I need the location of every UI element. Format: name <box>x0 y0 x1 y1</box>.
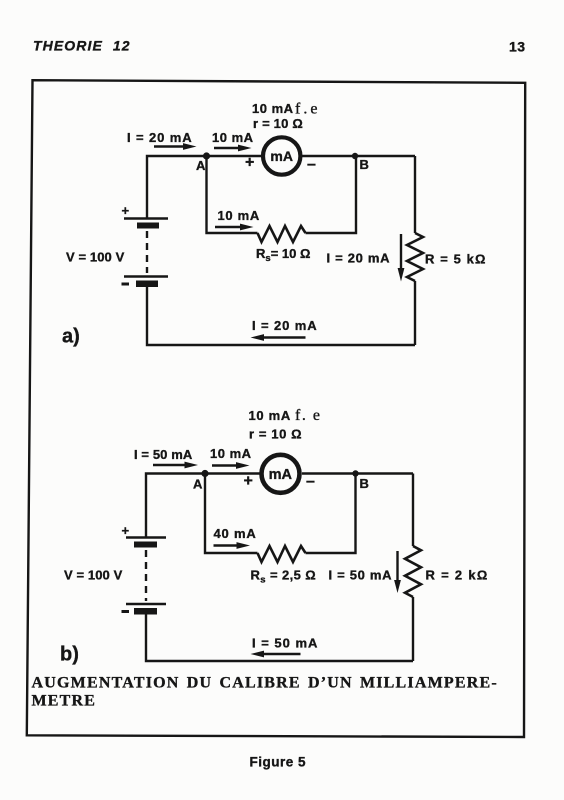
current arrow down (R b) <box>394 551 401 593</box>
label r = 10 ohm (meter a resistance) <box>253 116 303 131</box>
svg-text:I = 50 mA: I = 50 mA <box>329 568 393 583</box>
svg-text:mA: mA <box>269 467 293 483</box>
R branch a: lower vertical <box>414 281 416 345</box>
label r = 10 ohm (meter b resistance) <box>249 427 302 442</box>
svg-text:Figure 5: Figure 5 <box>250 755 307 770</box>
figure caption <box>250 755 307 770</box>
meter a minus terminal <box>307 156 316 173</box>
label I = 20 mA (near R a) <box>327 251 391 266</box>
arrow for 10 mA (meter branch a) <box>214 145 252 152</box>
svg-text:a): a) <box>62 326 80 348</box>
svg-text:+: + <box>245 154 254 171</box>
svg-text:40 mA: 40 mA <box>214 526 257 541</box>
wire shunt b right to node B <box>306 474 356 554</box>
arrow for 10 mA (shunt a) <box>215 224 254 231</box>
svg-text:I = 50 mA: I = 50 mA <box>134 447 193 462</box>
arrow for 10 mA (meter branch b) <box>212 462 250 469</box>
label b) <box>60 644 79 666</box>
svg-text:10 mA: 10 mA <box>210 446 252 461</box>
battery V1 plus sign <box>122 203 130 218</box>
svg-text:B: B <box>360 476 369 491</box>
svg-text:10 mA: 10 mA <box>212 130 254 145</box>
svg-text:+: + <box>122 203 130 218</box>
svg-text:A: A <box>193 477 203 492</box>
arrow for 40 mA (shunt b) <box>214 542 251 549</box>
caption line 2 <box>32 693 97 710</box>
wire battery a bottom lead <box>147 287 415 345</box>
arrow for I = 20 mA (bottom a, pointing left) <box>251 334 306 341</box>
label 10 mA f.e (meter a rating) <box>252 101 320 118</box>
svg-text:13: 13 <box>509 39 526 55</box>
arrow for I = 20 mA (top a) <box>154 143 197 150</box>
arrow for I = 50 mA (bottom b, pointing left) <box>251 651 301 658</box>
resistor R (b) vertical zigzag <box>405 546 421 597</box>
node A (circuit a) <box>196 152 210 173</box>
meter b plus terminal <box>244 473 253 490</box>
label I = 50 mA (bottom b) <box>252 636 318 651</box>
wire top a: meter to R branch <box>302 155 415 157</box>
resistor Rs (b) zigzag <box>258 546 306 562</box>
battery V2 dashed middle <box>145 550 147 601</box>
meter b minus terminal <box>306 473 315 490</box>
border frame <box>27 80 525 737</box>
label 10 mA (meter branch b) <box>210 446 252 461</box>
svg-text:b): b) <box>60 644 79 666</box>
node A (circuit b) <box>193 470 209 492</box>
wire shunt a right to node B <box>306 156 357 233</box>
label I = 20 mA (top left a) <box>127 130 193 145</box>
current arrow down (R a) <box>398 234 405 282</box>
label I = 50 mA (top left b) <box>134 447 193 462</box>
svg-text:V = 100 V: V = 100 V <box>64 568 123 583</box>
battery V2 plus sign <box>122 523 130 538</box>
svg-text:I = 20 mA: I = 20 mA <box>127 130 193 145</box>
milliammeter a <box>263 137 300 174</box>
milliammeter b <box>262 455 300 493</box>
svg-text:A: A <box>196 158 206 173</box>
meter a plus terminal <box>245 154 254 171</box>
svg-text:THEORIE 12: THEORIE 12 <box>33 38 131 54</box>
label Rs = 2,5 ohm <box>251 568 317 586</box>
battery V1 top cell <box>124 219 168 229</box>
shunt loop a left: node A down and to resistor <box>207 156 258 233</box>
wire top b: meter to R branch <box>302 472 413 474</box>
resistor Rs (a) zigzag <box>258 226 306 242</box>
page number 13 <box>509 39 526 55</box>
label R = 2 kohm <box>426 568 489 583</box>
label R = 5 kohm <box>425 252 487 267</box>
arrow for I = 50 mA (top b) <box>153 462 198 469</box>
svg-text:10 mA: 10 mA <box>218 208 261 223</box>
node B (circuit a) <box>352 153 369 172</box>
node B (circuit b) <box>352 470 369 491</box>
svg-text:+: + <box>122 523 130 538</box>
R branch a: upper vertical <box>414 156 416 233</box>
svg-text:–: – <box>306 473 315 490</box>
svg-text:+: + <box>244 473 253 490</box>
label I = 20 mA (bottom a) <box>252 318 318 333</box>
R branch b: upper vertical <box>412 474 414 547</box>
svg-text:AUGMENTATION DU CALIBRE D’UN M: AUGMENTATION DU CALIBRE D’UN MILLIAMPERE… <box>32 675 498 692</box>
battery V1 dashed middle <box>146 231 148 273</box>
svg-text:METRE: METRE <box>32 693 97 710</box>
battery V2 top cell <box>126 538 166 548</box>
svg-text:B: B <box>360 157 369 172</box>
svg-text:Rs= 10 Ω: Rs= 10 Ω <box>256 246 310 264</box>
label V = 100 V (a) <box>66 250 125 265</box>
label 10 mA (shunt a) <box>218 208 261 223</box>
wire battery b bottom lead <box>146 614 413 661</box>
svg-text:f.e: f.e <box>295 101 320 118</box>
svg-text:R = 5 kΩ: R = 5 kΩ <box>425 252 487 267</box>
label 10 mA (meter branch a) <box>212 130 254 145</box>
R branch b: lower vertical <box>412 597 414 661</box>
wire top a: battery to meter <box>147 156 262 218</box>
label 10 mA f. e (meter b rating) <box>249 407 322 424</box>
svg-text:f. e: f. e <box>295 407 321 424</box>
label V = 100 V (b) <box>64 568 123 583</box>
resistor R (a) vertical zigzag <box>407 233 423 281</box>
svg-text:I = 20 mA: I = 20 mA <box>327 251 391 266</box>
svg-text:10 mA: 10 mA <box>252 101 294 116</box>
svg-text:r = 10 Ω: r = 10 Ω <box>249 427 302 442</box>
page header left <box>33 38 131 54</box>
label Rs = 10 ohm <box>256 246 310 264</box>
label 40 mA (shunt b) <box>214 526 257 541</box>
battery V1 bottom cell <box>122 277 169 288</box>
svg-text:r = 10 Ω: r = 10 Ω <box>253 116 303 131</box>
svg-text:I = 50 mA: I = 50 mA <box>252 636 318 651</box>
svg-text:I = 20 mA: I = 20 mA <box>252 318 318 333</box>
svg-text:–: – <box>307 156 316 173</box>
svg-text:R = 2 kΩ: R = 2 kΩ <box>426 568 489 583</box>
svg-text:10 mA: 10 mA <box>249 408 292 423</box>
caption line 1 <box>32 675 498 692</box>
svg-text:Rs = 2,5 Ω: Rs = 2,5 Ω <box>251 568 317 586</box>
svg-text:mA: mA <box>270 148 293 164</box>
shunt loop b left: node A down and to resistor <box>205 474 258 554</box>
label I = 50 mA (near R b) <box>329 568 393 583</box>
label a) <box>62 326 80 348</box>
svg-text:V = 100 V: V = 100 V <box>66 250 125 265</box>
battery V2 bottom cell <box>122 604 167 615</box>
wire top b: battery to meter <box>146 474 262 538</box>
